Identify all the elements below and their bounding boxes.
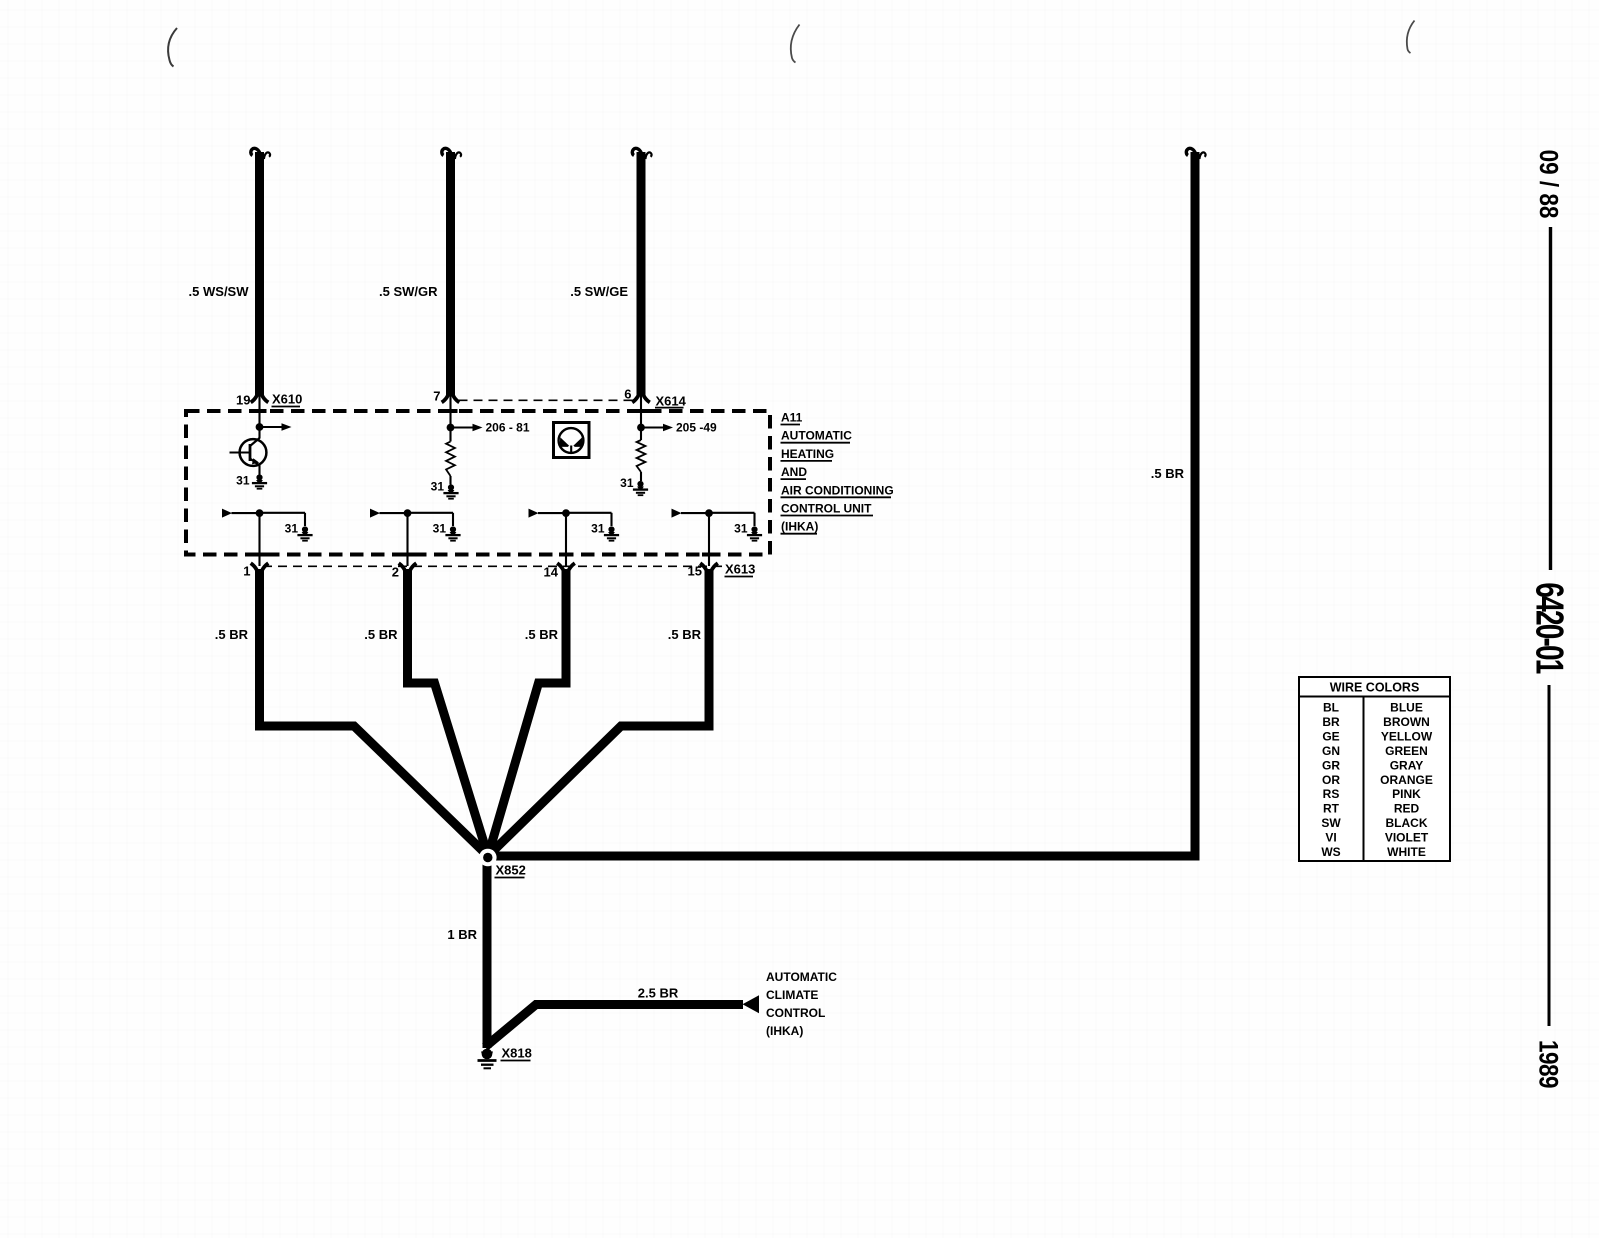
wire continuation hook [442,148,461,159]
resistor R1 [446,428,455,485]
border tick bottom pin [253,553,267,557]
svg-text:VIOLET: VIOLET [1385,831,1429,845]
connector strip dashed X613 [263,565,722,567]
svg-text:GE: GE [1322,729,1339,743]
wire .5 BR right vertical [1191,152,1200,861]
svg-text:RED: RED [1394,802,1420,816]
wire .5 WS/SW vertical feed [255,152,264,396]
border tick bottom pin [401,553,415,557]
svg-text:PINK: PINK [1392,787,1421,801]
wire .5 BR from pin 15 [488,569,709,856]
svg-text:.5 BR: .5 BR [1151,466,1185,481]
wire pin6 into box [640,395,642,428]
svg-text:BR: BR [1322,715,1340,729]
svg-text:CONTROL: CONTROL [766,1006,825,1020]
svg-text:09 / 88: 09 / 88 [1534,150,1563,219]
svg-text:GN: GN [1322,744,1340,758]
svg-text:CLIMATE: CLIMATE [766,988,818,1002]
svg-text:31: 31 [431,480,445,494]
svg-text:2.5 BR: 2.5 BR [638,986,679,1001]
wire continuation hook right [1186,148,1205,159]
svg-text:206 - 81: 206 - 81 [486,421,530,435]
svg-text:31: 31 [285,522,299,536]
switch output 1 [222,509,305,566]
wire 2.5 BR branch [485,1005,743,1048]
svg-text:15: 15 [688,564,702,579]
svg-text:HEATING: HEATING [781,447,834,461]
svg-text:19: 19 [236,393,250,408]
svg-text:.5 SW/GR: .5 SW/GR [379,284,438,299]
svg-text:AUTOMATIC: AUTOMATIC [766,970,837,984]
connector socket bottom pin [700,563,718,571]
node junction pin7 [447,424,455,432]
node X852 splice [479,849,497,867]
svg-text:A11: A11 [781,411,803,425]
connector socket bottom pin [557,563,575,571]
border tick bottom pin [559,553,573,557]
svg-text:X614: X614 [656,394,687,409]
svg-text:BL: BL [1323,701,1339,715]
svg-text:.5 BR: .5 BR [668,627,702,642]
switch output 2 [370,509,453,566]
page curl mark center [791,25,800,63]
wire .5 BR from pin 14 [488,569,566,856]
svg-text:RS: RS [1323,787,1340,801]
wire colors legend table [1299,677,1450,861]
border tick pin19 [253,409,267,413]
border tick pin7 [444,409,458,413]
svg-text:31: 31 [591,522,605,536]
svg-text:2: 2 [392,565,399,580]
label automatic climate control [766,970,837,1038]
connector X610 pin 19 socket [251,394,269,402]
wire .5 BR from pin 1 [260,569,489,856]
svg-text:GR: GR [1322,758,1340,772]
switch output 3 [529,509,612,566]
svg-text:.5 WS/SW: .5 WS/SW [189,284,250,299]
svg-text:AUTOMATIC: AUTOMATIC [781,429,852,443]
control unit A11 dashed outline [186,411,770,555]
switch output 4 [672,509,755,566]
svg-text:BROWN: BROWN [1383,715,1430,729]
arrow to 205-49 [644,424,674,432]
label A11 control unit name [781,411,894,534]
page curl mark left [168,28,177,67]
svg-text:X852: X852 [496,863,526,878]
svg-text:31: 31 [620,476,634,490]
svg-text:.5 BR: .5 BR [364,627,398,642]
svg-text:WS: WS [1321,845,1340,859]
svg-text:ORANGE: ORANGE [1380,773,1433,787]
label X818 [501,1046,532,1061]
ground 31 transistor [252,474,267,488]
border tick bottom pin [702,553,716,557]
connector strip dashed X614 [459,399,635,401]
svg-text:VI: VI [1325,831,1336,845]
node junction pin19 [256,423,264,431]
sidebar rule upper [1549,227,1552,570]
connector X614 pin 6 socket [632,394,650,402]
label X852 [495,863,526,878]
resistor R2 [637,428,646,482]
wire .5 SW/GR vertical feed [446,152,455,396]
ground 31 switch 2 [445,526,460,540]
svg-text:1 BR: 1 BR [447,927,477,942]
wire continuation hook [632,148,651,159]
blower motor icon [554,423,590,458]
ground 31 switch 4 [747,526,762,540]
connector socket bottom pin [399,563,417,571]
svg-text:6: 6 [624,387,631,402]
ground 31 switch 1 [297,526,312,540]
ground X818 [478,1049,497,1069]
svg-text:X613: X613 [725,562,755,577]
svg-text:(IHKA): (IHKA) [781,520,818,534]
svg-text:BLUE: BLUE [1390,701,1423,715]
wire main horizontal bus to right [488,852,1200,861]
wire pin19 into box [258,395,260,427]
svg-text:YELLOW: YELLOW [1381,729,1433,743]
svg-text:31: 31 [236,474,250,488]
ground 31 resistor R2 [633,481,648,495]
svg-text:GREEN: GREEN [1385,744,1428,758]
node junction pin6 [637,424,645,432]
arrow output pin19 [262,423,292,431]
svg-text:7: 7 [433,389,440,404]
svg-text:AIR CONDITIONING: AIR CONDITIONING [781,483,894,497]
svg-text:WHITE: WHITE [1387,845,1426,859]
arrow to climate control [743,995,760,1013]
svg-text:WIRE COLORS: WIRE COLORS [1330,681,1420,695]
wire .5 BR from pin 2 [408,569,489,856]
svg-text:.5 SW/GE: .5 SW/GE [570,284,628,299]
transistor Q1 [230,427,267,475]
svg-text:1989: 1989 [1533,1040,1562,1088]
svg-text:GRAY: GRAY [1390,758,1424,772]
wire continuation hook [251,148,270,159]
svg-text:BLACK: BLACK [1386,816,1428,830]
svg-text:SW: SW [1321,816,1341,830]
svg-text:(IHKA): (IHKA) [766,1024,803,1038]
svg-text:RT: RT [1323,802,1340,816]
connector socket bottom pin [251,563,269,571]
ground 31 switch 3 [604,526,619,540]
svg-text:31: 31 [433,522,447,536]
svg-text:31: 31 [734,522,748,536]
svg-text:14: 14 [544,565,559,580]
svg-text:OR: OR [1322,773,1340,787]
svg-text:CONTROL UNIT: CONTROL UNIT [781,502,872,516]
connector pin 7 socket [442,394,460,402]
svg-text:1: 1 [243,564,250,579]
svg-text:.5 BR: .5 BR [525,627,559,642]
border tick pin6 [634,409,648,413]
sidebar rule lower [1548,685,1551,1026]
svg-text:X610: X610 [272,392,302,407]
page curl mark right [1407,21,1415,54]
svg-text:205 -49: 205 -49 [676,421,717,435]
arrow to 206-81 [453,424,483,432]
svg-text:AND: AND [781,465,807,479]
wire .5 SW/GE vertical feed [637,152,646,396]
svg-text:.5 BR: .5 BR [215,627,249,642]
ground 31 resistor R1 [443,484,458,498]
wire 1 BR vertical [483,856,492,1048]
svg-text:6420-01: 6420-01 [1528,582,1572,673]
wire pin7 into box [449,395,451,428]
svg-text:X818: X818 [502,1046,532,1061]
